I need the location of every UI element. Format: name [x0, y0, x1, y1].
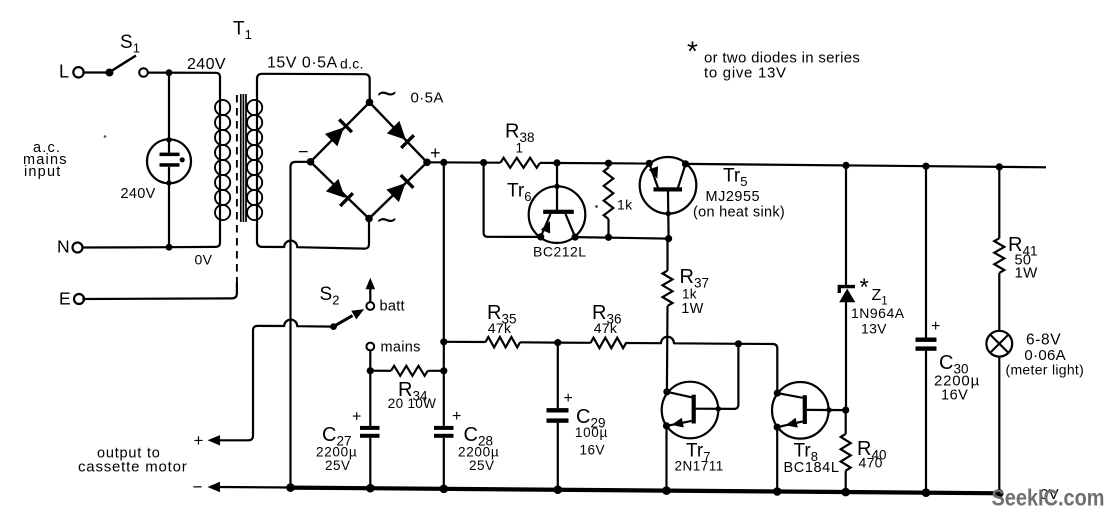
rail junction	[773, 487, 782, 496]
svg-text:S1: S1	[120, 32, 140, 56]
svg-text:+: +	[194, 431, 204, 450]
minus output arrow	[216, 486, 291, 489]
svg-text:∼: ∼	[376, 78, 399, 108]
wire mains contact to R34/C27	[369, 350, 371, 426]
node R38 left / Tr6 emitter branch	[480, 159, 487, 166]
svg-text:SeekIC.com: SeekIC.com	[992, 485, 1105, 511]
rail R38 to Tr5	[540, 162, 650, 165]
wire S2 common to + output (hop over 0V line)	[216, 320, 334, 441]
Tr7 collector leg	[667, 392, 692, 398]
rail junction	[841, 488, 850, 497]
+ output arrow	[208, 435, 221, 445]
rail junction	[554, 485, 563, 494]
Tr7 base lead	[696, 344, 739, 409]
node: L/neon junction	[166, 69, 173, 76]
Tr8 base lead	[807, 409, 846, 411]
svg-text:2200µ: 2200µ	[316, 444, 357, 459]
resistor R40	[841, 434, 851, 471]
svg-text:0V: 0V	[195, 252, 213, 268]
rail junction	[440, 485, 449, 494]
Tr6 emitter branch wire	[484, 163, 541, 237]
T1 core laminations	[240, 94, 242, 222]
Z1 triangle	[839, 289, 855, 303]
svg-text:1k: 1k	[682, 286, 697, 301]
svg-text:240V: 240V	[187, 56, 226, 73]
Tr8 collector leg	[777, 393, 802, 398]
svg-text:*: *	[687, 36, 698, 67]
svg-text:−: −	[298, 142, 309, 162]
neon indicator 240V : top lead	[168, 73, 170, 153]
resistor R38	[500, 158, 540, 168]
T1 secondary vertical + corners	[257, 74, 284, 247]
node R41 top	[996, 163, 1003, 170]
Tr7 emitter to 0V rail	[665, 426, 667, 491]
capacitor C28	[434, 426, 454, 430]
wire to Tr8 collector	[738, 344, 777, 393]
diode D1 (bridge top-left)	[325, 127, 344, 146]
svg-text:47k: 47k	[488, 320, 512, 336]
svg-text:mains: mains	[381, 339, 421, 355]
svg-text:to give 13V: to give 13V	[704, 65, 787, 82]
svg-text:1W: 1W	[1015, 265, 1039, 282]
diode D2 (bridge top-right)	[387, 121, 406, 140]
svg-text:15V 0·5A: 15V 0·5A	[267, 55, 338, 72]
svg-text:+: +	[352, 409, 362, 426]
svg-text:16V: 16V	[580, 443, 606, 458]
wire E to transformer screen	[83, 284, 237, 300]
wire secondary bottom to bridge (hop over minus line)	[284, 219, 369, 249]
svg-text:1k: 1k	[617, 197, 633, 213]
Tr5 base lead	[667, 192, 670, 239]
raw supply vertical (bridge+ down to C28)	[443, 162, 445, 426]
Tr8 emitter to 0V rail	[776, 427, 778, 491]
svg-text:470: 470	[859, 455, 883, 471]
Tr5 collector leg	[678, 164, 686, 188]
svg-text:(on heat sink): (on heat sink)	[693, 204, 785, 220]
svg-text:−: −	[193, 478, 203, 497]
bridge edge BR	[369, 162, 427, 218]
Tr8 emitter leg	[777, 421, 803, 427]
svg-text:+: +	[430, 143, 441, 163]
svg-text:100µ: 100µ	[575, 425, 608, 440]
svg-text:(meter light): (meter light)	[1006, 362, 1085, 378]
svg-text:+: +	[931, 318, 941, 335]
svg-text:cassette motor: cassette motor	[78, 458, 188, 475]
svg-text:MJ2955: MJ2955	[706, 189, 761, 205]
svg-text:∼: ∼	[376, 205, 399, 235]
svg-text:1N964A: 1N964A	[851, 305, 905, 321]
bridge edge BL	[311, 162, 370, 219]
transistor Tr6 BC212L	[529, 186, 586, 243]
svg-text:2200µ: 2200µ	[458, 444, 499, 459]
node feedback line left	[440, 338, 447, 345]
svg-text:N: N	[57, 237, 70, 257]
svg-text:0·5A: 0·5A	[411, 90, 444, 107]
wire R36 to Tr7 base riser (hop over R37 line)	[626, 337, 738, 344]
main + rail : Tr5 collector to right end	[686, 164, 1047, 167]
node Tr6 base drop	[553, 159, 560, 166]
svg-text:L: L	[59, 62, 69, 82]
rail junction	[995, 489, 1004, 498]
Tr5 emitter leg	[649, 163, 658, 187]
node C30 top	[922, 163, 929, 170]
main + rail : bridge to Tr5 emitter	[427, 161, 500, 164]
meter lamp	[986, 331, 1012, 357]
capacitor C30	[925, 166, 927, 337]
rail junction	[662, 486, 671, 495]
svg-text:T1: T1	[233, 19, 252, 43]
ink speck	[595, 205, 598, 208]
svg-text:20 10W: 20 10W	[388, 396, 436, 411]
wire bridge minus to 0V rail (vertical)	[291, 162, 311, 488]
svg-text:BC212L: BC212L	[533, 243, 587, 259]
svg-text:d.c.: d.c.	[340, 56, 364, 72]
node Z1 top	[842, 162, 849, 169]
bridge edge TR	[370, 102, 428, 162]
svg-text:+: +	[564, 390, 574, 407]
neon indicator circle	[147, 139, 191, 183]
capacitor C29	[557, 343, 559, 409]
zener Z1	[845, 165, 847, 287]
wire L to S1	[82, 71, 106, 73]
wire N to primary bottom	[82, 246, 169, 249]
resistor R41	[998, 167, 1000, 238]
S2 mains contact	[366, 343, 374, 351]
svg-text:Tr6: Tr6	[507, 181, 531, 205]
node raw+	[440, 159, 447, 166]
resistor R34	[370, 370, 391, 372]
Tr6 emitter leg	[541, 214, 551, 237]
neon electrodes	[160, 153, 180, 157]
node 1k top	[605, 160, 612, 167]
transistor Tr7 2N1711	[662, 382, 719, 439]
T1 core screen (dashed)	[236, 95, 238, 285]
Z1 cathode bar with tab	[839, 287, 855, 293]
svg-text:47k: 47k	[594, 320, 618, 336]
svg-text:S2: S2	[320, 284, 340, 308]
rail junction	[366, 484, 375, 493]
neon bottom lead	[168, 167, 170, 248]
T1 primary vertical + corners	[169, 73, 220, 247]
wire S1 to transformer primary top	[147, 71, 216, 73]
svg-text:16V: 16V	[941, 388, 968, 404]
svg-text:+: +	[452, 408, 462, 425]
feedback line: raw+ to Tr7 base / Tr8 collector	[444, 341, 486, 343]
svg-text:13V: 13V	[861, 321, 887, 337]
resistor R36	[558, 342, 591, 344]
svg-text:batt: batt	[380, 299, 405, 315]
wire Tr6 collector to Tr5 base node	[575, 237, 669, 239]
T1 secondary coil loops	[247, 100, 262, 115]
svg-text:Tr5: Tr5	[723, 166, 747, 190]
resistor R35	[485, 337, 520, 347]
node R34 right	[440, 367, 447, 374]
svg-text:25V: 25V	[469, 458, 495, 473]
svg-text:*: *	[860, 274, 870, 301]
svg-text:E: E	[59, 289, 71, 309]
Tr7 emitter leg	[667, 421, 692, 426]
rail junction	[286, 483, 295, 492]
bridge edge TL	[311, 102, 370, 162]
svg-text:25V: 25V	[325, 458, 351, 473]
Tr6 collector leg	[566, 214, 576, 237]
rail junction	[922, 488, 931, 497]
T1 primary coil loops	[215, 100, 230, 115]
node Tr7 base riser	[735, 340, 742, 347]
capacitor C27	[360, 426, 380, 430]
resistor R37	[666, 239, 668, 271]
diode D3 (bridge bottom-left)	[326, 179, 345, 198]
svg-text:6-8V: 6-8V	[1026, 332, 1061, 349]
node: N/neon junction	[166, 244, 173, 251]
diode D4 (bridge bottom-right)	[386, 183, 405, 202]
svg-text:2N1711: 2N1711	[675, 458, 724, 473]
svg-text:1W: 1W	[681, 301, 703, 317]
transistor Tr8 BC184L	[772, 382, 829, 439]
svg-text:input: input	[24, 164, 61, 180]
svg-text:1: 1	[516, 141, 524, 156]
svg-text:BC184L: BC184L	[784, 460, 840, 476]
wire secondary top to bridge	[262, 74, 370, 103]
0V rail (thick)	[291, 488, 1003, 494]
battery arrow	[369, 287, 371, 302]
svg-text:240V: 240V	[121, 186, 156, 202]
transistor Tr5 MJ2955	[640, 157, 697, 214]
switch S1	[106, 69, 114, 77]
node C29 top	[554, 339, 561, 346]
resistor 1k (Tr5 base-emitter)	[607, 163, 609, 167]
